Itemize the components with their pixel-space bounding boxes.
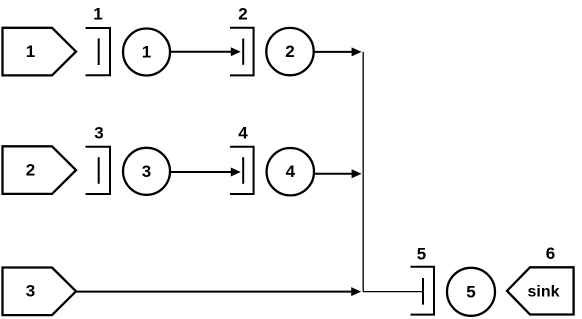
svg-text:1: 1 (142, 43, 151, 62)
wire place2 to junction (314, 51, 358, 53)
junction vertical wire (362, 52, 364, 292)
svg-text:4: 4 (286, 162, 296, 181)
svg-text:2: 2 (26, 161, 35, 180)
station 2 (queue bracket) (230, 28, 254, 76)
arrowhead at junction bottom (351, 287, 361, 296)
station 3 (queue bracket) (86, 147, 111, 194)
arrowhead at junction middle (352, 169, 362, 178)
svg-text:4: 4 (238, 123, 248, 142)
source 3 (pentagon) (3, 268, 77, 316)
svg-text:6: 6 (546, 244, 555, 263)
wire place3 to station4 (170, 171, 238, 173)
svg-text:1: 1 (93, 5, 102, 24)
station 2 server bar (242, 39, 244, 65)
station 3 server bar (98, 157, 100, 184)
arrowhead at station 4 (231, 168, 241, 177)
svg-text:3: 3 (142, 162, 151, 181)
svg-text:5: 5 (417, 245, 426, 264)
arrowhead at junction top (352, 47, 362, 56)
svg-text:3: 3 (94, 123, 103, 142)
wire place4 to junction (314, 173, 358, 175)
source 1 (pentagon) (3, 28, 77, 76)
svg-text:2: 2 (285, 42, 294, 61)
place 3 (circle) (123, 148, 170, 195)
svg-text:2: 2 (238, 5, 247, 24)
station 5 (queue bracket) (411, 267, 435, 315)
sink (pentagon pointing left) (507, 267, 574, 314)
arrowhead at station 2 (231, 47, 241, 56)
svg-text:5: 5 (466, 282, 475, 301)
source 2 (pentagon) (3, 146, 77, 194)
svg-text:sink: sink (527, 284, 559, 301)
svg-text:3: 3 (26, 282, 35, 301)
place 4 (circle) (267, 148, 314, 195)
svg-text:1: 1 (26, 42, 35, 61)
station 4 (queue bracket) (230, 147, 254, 194)
place 2 (circle) (266, 28, 313, 75)
place 5 (circle) (447, 268, 495, 316)
station 1 server bar (98, 38, 100, 65)
wire source3 to junction (76, 291, 358, 293)
wire place1 to station2 (170, 51, 238, 53)
station 1 (queue bracket) (86, 28, 111, 75)
station 4 server bar (242, 157, 244, 184)
place 1 (circle) (123, 29, 170, 76)
station 5 server bar (422, 278, 424, 305)
wire junction to station 5 (363, 291, 422, 293)
